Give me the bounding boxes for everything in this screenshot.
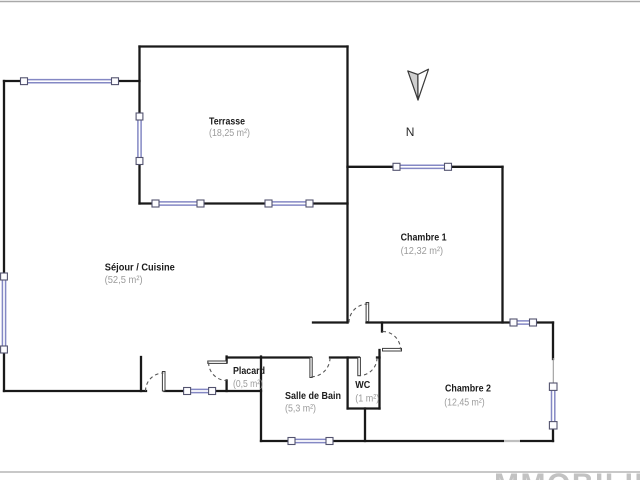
wall: wc left wall: [346, 358, 348, 409]
wall: terrasse bottom wall: [140, 202, 348, 204]
window W6 chambre2 right: [549, 383, 557, 429]
wall: terrasse left wall: [138, 47, 140, 204]
door D2 arc: [349, 304, 367, 322]
window W4 chambre1 top: [393, 163, 452, 170]
svg-text:WC: WC: [355, 379, 370, 391]
door D1 entrance: leaf: [162, 372, 165, 392]
svg-text:(1 m²): (1 m²): [355, 393, 379, 405]
wall: placard left wall upper jamb: [225, 357, 227, 363]
svg-text:MMOBILIERCOM: MMOBILIERCOM: [494, 468, 640, 480]
window WA terrasse bottom left: [152, 200, 204, 207]
wall: wc right wall: [378, 350, 380, 409]
svg-text:(12,32 m²): (12,32 m²): [401, 245, 444, 257]
wall: séjour bottom wall left segment: [4, 390, 146, 392]
wall: chambre1 right wall: [501, 167, 503, 323]
wall: sdb-chambre2 divider: [364, 409, 366, 442]
wall: top wall sdb-wc: [330, 356, 359, 358]
wall: terrasse right / chambre1 left wall: [346, 47, 348, 323]
svg-text:(12,45 m²): (12,45 m²): [444, 396, 485, 408]
window W3 terrasse left: [136, 113, 143, 165]
windows: [1, 78, 557, 445]
wall: wc bottom wall: [348, 407, 380, 409]
svg-text:(0,5 m²): (0,5 m²): [233, 378, 263, 390]
svg-text:Chambre 2: Chambre 2: [445, 383, 491, 395]
window W2 séjour left: [1, 273, 8, 353]
wall: terrasse top wall: [140, 45, 348, 47]
wall: top wall placard-sdb: [227, 356, 311, 358]
wall: séjour top wall: [4, 80, 140, 82]
window W8 séjour bottom: [184, 388, 216, 395]
wall: chambre2 right wall thin segment: [552, 358, 554, 385]
door D3 arc: [383, 332, 401, 350]
door D1 arc: [146, 373, 164, 391]
window W1 séjour top: [21, 78, 119, 85]
wall: sdb left wall: [260, 357, 262, 442]
wall: chambre2 right wall lower: [552, 428, 554, 441]
svg-text:Séjour / Cuisine: Séjour / Cuisine: [105, 261, 175, 273]
wall: séjour bottom wall right segment + placard bottom: [165, 390, 262, 392]
top grey rule: [0, 1, 640, 3]
wash artifact on bottom wall: [504, 439, 520, 444]
wall: corridor wall left stub: [313, 321, 348, 323]
wall: bottom wall sdb + chambre2: [261, 440, 553, 442]
door D6 placard: leaf: [208, 361, 227, 363]
door D6 arc: [209, 363, 227, 381]
svg-text:(52,5 m²): (52,5 m²): [105, 274, 143, 286]
svg-text:N: N: [406, 125, 415, 139]
wall: wc top right jamb: [377, 356, 380, 358]
door D4 arc: [311, 358, 330, 377]
window W5 chambre2 top: [510, 319, 537, 326]
svg-text:Placard: Placard: [233, 365, 265, 377]
wall: chambre2 right wall upper: [552, 323, 554, 360]
wall: placard left wall lower jamb: [225, 381, 227, 392]
svg-text:(5,3 m²): (5,3 m²): [285, 402, 316, 414]
door D5 wc: leaf: [358, 358, 361, 376]
window WB terrasse bottom right: [265, 200, 313, 207]
door D2 chambre1: leaf: [366, 303, 369, 322]
door D5 arc: [359, 358, 377, 376]
doors: [146, 303, 402, 392]
svg-text:Terrasse: Terrasse: [209, 116, 245, 128]
wall: chambre2 door jamb upper: [381, 323, 383, 332]
svg-text:Salle de Bain: Salle de Bain: [285, 390, 341, 402]
svg-text:(18,25 m²): (18,25 m²): [209, 127, 250, 139]
wall: chambre1 top wall: [348, 166, 503, 168]
wall: chambre1 bottom / chambre2 top wall: [367, 321, 554, 323]
window W7 sdb bottom: [288, 438, 333, 445]
wall: kitchen stub wall: [140, 357, 142, 391]
door D3 chambre2: leaf: [383, 348, 402, 351]
svg-text:Chambre 1: Chambre 1: [401, 231, 447, 243]
wall: séjour left wall: [3, 81, 5, 391]
north arrow: [408, 69, 429, 100]
door D4 salle de bain: leaf: [310, 358, 312, 378]
bottom grey rule: [0, 471, 640, 473]
